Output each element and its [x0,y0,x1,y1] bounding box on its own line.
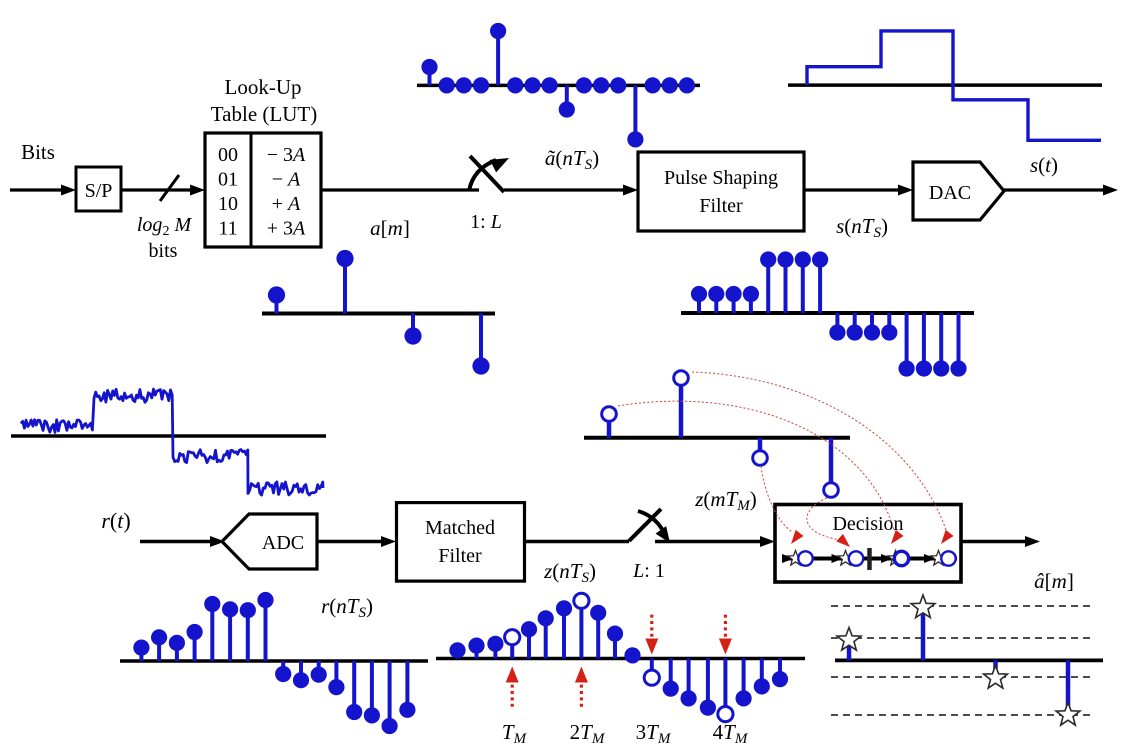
plot s(nTs) stem 11 [887,313,891,333]
svg-text:+ 3A: + 3A [267,218,306,240]
svg-text:1: L: 1: L [470,211,502,233]
decision arrowhead 1 [782,554,794,563]
plot s(t) axis [788,83,1102,87]
plot a[m] stem at 413 [411,314,415,337]
plot s(nTs) stem 12 [905,313,909,369]
svg-text:s(t): s(t) [1030,153,1058,177]
plot r(nTs) stem 7 [264,600,268,661]
downsampler switch L:1 [629,509,661,541]
plot a~(nTs) stem 10 [593,77,609,93]
svg-text:z(nTS): z(nTS) [543,559,596,586]
svg-text:Look-Up: Look-Up [225,75,302,99]
plot r(nTs) stem 9 [299,661,303,680]
red arrowhead decision 2 [836,534,853,551]
plot z(mTM) stem 1 [607,414,612,438]
plot a[m] stem at 276.5 [275,295,279,314]
red sampling arrow 3TM [650,615,653,638]
red dashed curve sample3 to decision [761,466,792,532]
plot z(nTs) stem 6 [562,608,566,658]
wire filter to DAC [804,188,900,191]
plot r(nTs) stem 1 [157,637,161,661]
plot s(t) staircase [807,31,1101,140]
plot s(nTs) stem 4 [766,260,770,314]
plot z(mTM) stem 4 [829,438,834,490]
plot a^[m] stem 3 [993,660,998,678]
wire input to ADC [140,540,212,543]
decision circle 3 [894,551,908,565]
svg-text:Pulse Shaping: Pulse Shaping [664,167,778,189]
plot a[m] axis [262,312,495,316]
plot a~(nTs) axis [417,84,700,88]
plot r(t) axis [11,434,326,438]
plot a~(nTs) stem 6 [524,77,540,93]
plot r(nTs) stem 2 [175,643,179,661]
plot z(nTs) stem 16 [742,659,746,699]
plot s(nTs) stem 7 [818,260,822,314]
plot z(mTM) stem 2 [679,378,684,438]
decision center tick [867,548,872,570]
plot r(nTs) stem 11 [334,661,338,687]
wire downsampler to decision [655,540,762,543]
plot s(nTs) stem 14 [939,313,943,369]
wire DAC output s(t) [1004,188,1105,191]
plot z(mTM) stem 3 [758,438,763,458]
red arrowhead decision 4 [937,530,953,547]
plot a^[m] stem 1 [847,640,852,660]
wire ADC to matched filter [317,540,383,543]
plot r(nTs) stem 0 [139,648,143,661]
svg-text:Filter: Filter [438,545,482,567]
svg-text:00: 00 [218,144,238,166]
svg-text:− A: − A [272,169,301,191]
red sampling arrow TM [511,683,514,707]
plot z(nTs) stem 2 [493,644,497,659]
svg-text:Decision: Decision [832,513,903,535]
plot r(nTs) axis [120,659,428,663]
red sampling arrow 4TM [724,615,727,638]
plot s(nTs) stem 8 [835,313,839,333]
plot a^[m] axis [835,659,1103,663]
decision star 4 [931,551,946,566]
decision arrowhead 3 [881,554,893,563]
plot a[m] stem at 345 [343,259,347,314]
plot z(nTs) stem 18 [778,659,782,680]
decision circle 1 [798,551,812,565]
decision arrowhead 4 [924,554,936,563]
svg-text:S/P: S/P [85,180,113,202]
plot s(nTs) stem 13 [922,313,926,369]
plot a~(nTs) stem 14 [662,77,678,93]
plot z(nTs) stem 12 [669,659,673,689]
plot s(nTs) stem 3 [749,294,753,313]
block Pulse Shaping Filter [638,152,804,231]
plot s(nTs) axis [681,311,974,315]
plot a^[m] stem 4 [1066,660,1071,715]
plot z(nTs) stem 9 [613,634,617,659]
plot r(nTs) stem 10 [317,661,321,675]
plot a~(nTs) stem 15 [679,77,695,93]
wire upsampler to pulse shaping filter [504,188,625,191]
plot a[m] stem at 481 [479,314,483,367]
plot r(nTs) stem 12 [352,661,356,712]
svg-text:Filter: Filter [699,195,743,217]
svg-text:r(nTS): r(nTS) [321,594,373,621]
plot z(nTs) stem 8 [596,613,600,659]
svg-text:s(nTS): s(nTS) [836,214,888,241]
wire matched filter to downsampler [525,540,630,543]
wire decision output [961,540,1027,543]
plot z(nTs) stem 0 [456,650,460,658]
svg-text:+ A: + A [272,193,301,215]
svg-text:a[m]: a[m] [370,216,410,240]
plot r(nTs) stem 14 [388,661,392,726]
svg-text:â[m]: â[m] [1034,569,1074,593]
plot a~(nTs) stem 8 [565,85,569,109]
svg-text:Matched: Matched [425,517,495,539]
svg-text:11: 11 [218,218,237,240]
block DAC [913,162,1004,220]
plot a~(nTs) stem 11 [610,77,626,93]
svg-text:01: 01 [218,169,238,191]
wire input arrow to S/P [10,188,63,191]
plot a~(nTs) stem 7 [542,77,558,93]
plot z(nTs) stem 13 [687,659,691,699]
wire LUT to upsampler [321,188,479,191]
plot s(nTs) stem 1 [714,294,718,313]
plot z(nTs) stem 11 [650,659,654,678]
plot a^[m] dashed level lines [831,605,1094,607]
red dashed curve sample1 to decision [618,401,894,530]
red sampling arrow 2TM [580,683,583,707]
plot r(nTs) stem 13 [370,661,374,715]
block ADC [222,514,317,569]
plot z(mTM) axis [584,436,850,440]
svg-text:Table (LUT): Table (LUT) [211,102,317,126]
plot a~(nTs) stem 13 [645,77,661,93]
svg-text:Bits: Bits [21,140,55,164]
plot r(nTs) stem 3 [193,632,197,661]
plot z(nTs) stem 17 [760,659,764,687]
upsampler switch 1:L [469,160,496,191]
plot r(nTs) stem 8 [281,661,285,674]
plot s(nTs) stem 10 [870,313,874,333]
svg-text:L: 1: L: 1 [632,560,665,582]
plot z(nTs) axis [436,657,805,661]
red dashed curve sample4 to decision [807,498,841,540]
plot a~(nTs) stem 0 [428,67,432,85]
red arrowhead decision 1 [787,530,803,547]
decision star 2 [838,551,853,566]
red arrowhead decision 3 [887,530,903,547]
plot z(nTs) stem 5 [544,618,548,658]
plot z(nTs) stem 15 [723,659,727,715]
plot z(nTs) stem 4 [527,629,531,658]
plot a~(nTs) stem 2 [456,77,472,93]
plot s(nTs) stem 5 [784,260,788,314]
decision circle 4 [941,551,955,565]
plot a~(nTs) stem 5 [507,77,523,93]
plot s(nTs) stem 0 [697,294,701,313]
plot s(nTs) stem 9 [853,313,857,333]
plot r(nTs) stem 6 [246,610,250,661]
plot z(nTs) stem 7 [579,601,583,659]
plot a~(nTs) stem 1 [439,77,455,93]
plot a~(nTs) stem 4 [496,31,500,85]
plot s(nTs) stem 6 [801,260,805,314]
svg-text:r(t): r(t) [101,508,130,533]
plot z(nTs) stem 1 [475,646,479,659]
plot r(t) noisy waveform [21,389,323,495]
plot s(nTs) stem 15 [957,313,961,369]
red dashed curve sample2 to decision [692,372,946,530]
plot r(nTs) stem 4 [210,604,214,661]
decision arrowhead 2 [832,554,844,563]
wire S/P to LUT with slash [121,188,191,191]
svg-text:− 3A: − 3A [267,144,306,166]
plot a^[m] stem 2 [921,608,926,661]
svg-text:10: 10 [218,193,238,215]
plot r(nTs) stem 15 [405,661,409,710]
block Matched Filter [397,503,525,581]
svg-text:bits: bits [149,240,178,262]
decision axis line [782,557,957,561]
plot a~(nTs) stem 3 [473,77,489,93]
plot s(nTs) stem 2 [732,294,736,313]
decision star 3 [888,551,903,566]
svg-text:ADC: ADC [262,532,304,554]
plot z(nTs) stem 3 [510,637,514,658]
plot z(nTs) stem 14 [706,659,710,708]
plot r(nTs) stem 5 [228,609,232,661]
plot z(nTs) stem 10 [631,655,635,658]
plot a~(nTs) stem 12 [633,85,637,139]
plot a~(nTs) stem 9 [576,77,592,93]
svg-text:DAC: DAC [929,182,971,204]
block S/P [76,167,121,211]
block Decision [775,505,961,583]
decision star 1 [788,551,803,566]
decision circle 2 [849,551,863,565]
